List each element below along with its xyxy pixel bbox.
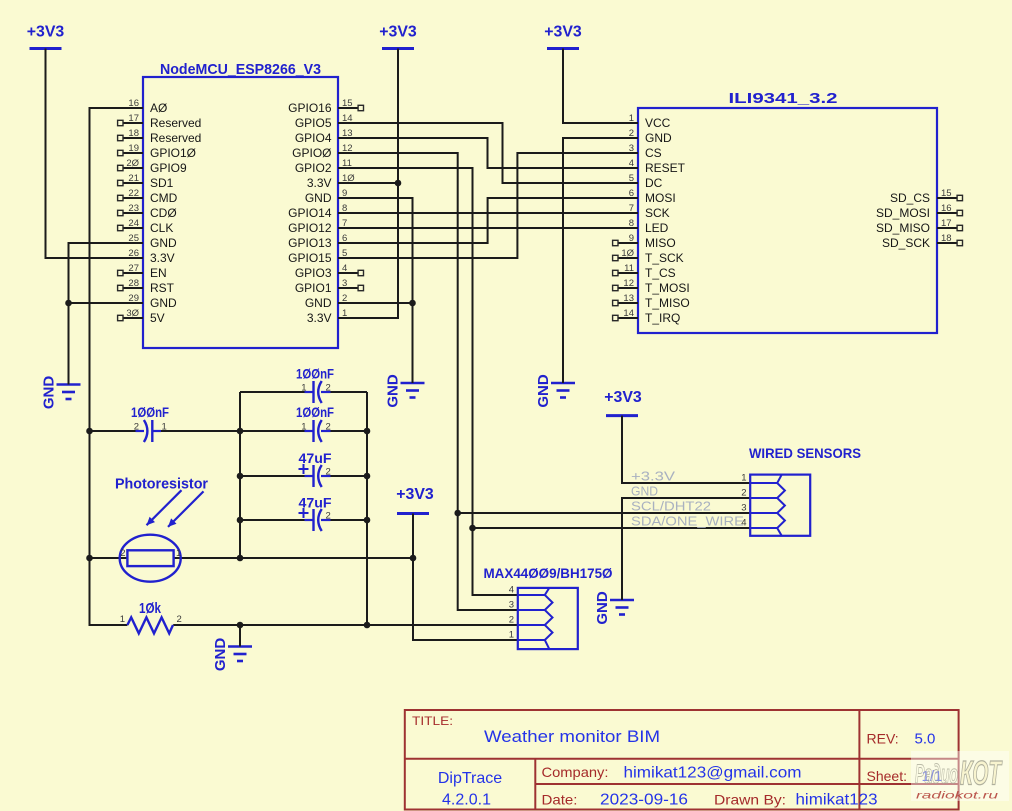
connector J2 WIRED SENSORS bbox=[741, 445, 861, 536]
U2 pin 10 T_SCK bbox=[613, 248, 684, 265]
svg-text:27: 27 bbox=[128, 263, 139, 274]
svg-text:himikat123@gmail.com: himikat123@gmail.com bbox=[624, 765, 802, 782]
svg-text:GND: GND bbox=[631, 484, 658, 499]
wire net GND to J2.2 bbox=[622, 498, 750, 600]
U1 pin 22 CMD bbox=[118, 188, 178, 205]
U2 pin 18 SD_SCK bbox=[882, 233, 963, 250]
U1 pin 6 GPIO13 bbox=[288, 233, 358, 250]
svg-text:25: 25 bbox=[128, 233, 139, 244]
svg-text:SD_SCK: SD_SCK bbox=[882, 236, 930, 250]
svg-text:15: 15 bbox=[342, 98, 353, 109]
svg-text:1: 1 bbox=[509, 630, 514, 641]
svg-text:radiokot.ru: radiokot.ru bbox=[916, 790, 998, 802]
ground symbol GND5 bbox=[212, 638, 252, 672]
svg-text:Drawn By:: Drawn By: bbox=[714, 792, 786, 808]
svg-text:3.3V: 3.3V bbox=[307, 311, 332, 325]
svg-text:GND: GND bbox=[385, 374, 402, 408]
svg-text:Радио: Радио bbox=[915, 759, 958, 789]
ground symbol GND3 bbox=[535, 374, 575, 408]
U1 pin 7 GPIO12 bbox=[288, 218, 358, 235]
svg-text:4: 4 bbox=[509, 585, 514, 596]
svg-text:T_IRQ: T_IRQ bbox=[645, 311, 680, 325]
wire net GPIO5 to ILI DC bbox=[338, 123, 638, 183]
wire net +3V3 to J2.1 bbox=[622, 416, 750, 483]
wire net GPIO13 to ILI MOSI bbox=[338, 198, 638, 243]
wire net +3V3 rail3 to ILI VCC bbox=[563, 49, 638, 124]
wire wire cap row C5 bbox=[240, 519, 367, 521]
U2 pin 14 T_IRQ bbox=[613, 308, 681, 325]
svg-text:EN: EN bbox=[150, 266, 167, 280]
svg-text:26: 26 bbox=[128, 248, 139, 259]
wire net GND at U1 pins 25,29 bbox=[65, 243, 123, 385]
svg-text:КОТ: КОТ bbox=[960, 755, 1003, 793]
svg-text:14: 14 bbox=[623, 308, 634, 319]
U1 pin 21 SD1 bbox=[118, 173, 174, 190]
svg-text:T_CS: T_CS bbox=[645, 266, 676, 280]
svg-text:4.2.0.1: 4.2.0.1 bbox=[442, 792, 491, 809]
svg-text:MOSI: MOSI bbox=[645, 191, 676, 205]
svg-text:GND: GND bbox=[305, 296, 332, 310]
svg-text:3Ø: 3Ø bbox=[126, 308, 139, 319]
svg-text:CS: CS bbox=[645, 146, 662, 160]
svg-text:CDØ: CDØ bbox=[150, 206, 177, 220]
wire net GND cap bus bbox=[364, 392, 371, 628]
svg-text:T_SCK: T_SCK bbox=[645, 251, 684, 265]
svg-text:GND: GND bbox=[594, 591, 611, 625]
U2 pin 2 GND bbox=[618, 128, 672, 145]
U2 pin 9 MISO bbox=[613, 233, 676, 250]
U2 pin 17 SD_MISO bbox=[876, 218, 963, 235]
svg-text:GND: GND bbox=[212, 638, 229, 672]
U1 pin 8 GPIO14 bbox=[288, 203, 358, 220]
svg-text:+3V3: +3V3 bbox=[379, 24, 417, 41]
svg-text:GPIO12: GPIO12 bbox=[288, 221, 332, 235]
U1 pin 10 3.3V bbox=[307, 173, 358, 190]
svg-text:2: 2 bbox=[134, 422, 139, 433]
svg-text:REV:: REV: bbox=[867, 731, 899, 747]
svg-text:T_MOSI: T_MOSI bbox=[645, 281, 690, 295]
svg-text:GPIO1Ø: GPIO1Ø bbox=[150, 146, 196, 160]
svg-text:12: 12 bbox=[623, 278, 634, 289]
U1 pin 28 RST bbox=[118, 278, 175, 295]
U1 pin 18 Reserved bbox=[118, 128, 202, 145]
svg-text:MAX44ØØ9/BH175Ø: MAX44ØØ9/BH175Ø bbox=[484, 565, 613, 581]
svg-text:3: 3 bbox=[342, 278, 347, 289]
capacitor C2 1ØØnF bbox=[296, 366, 334, 404]
svg-text:SD1: SD1 bbox=[150, 176, 174, 190]
svg-text:19: 19 bbox=[128, 143, 139, 154]
svg-text:2: 2 bbox=[326, 422, 331, 433]
wire net A0: U1.16 to C1/LDR/R1 bbox=[86, 108, 127, 625]
svg-text:GND: GND bbox=[150, 236, 177, 250]
svg-text:47uF: 47uF bbox=[299, 450, 332, 466]
title block texts bbox=[412, 714, 942, 809]
U1 pin 16 AØ bbox=[123, 98, 167, 115]
wire wire LDR row bbox=[90, 557, 414, 559]
svg-text:5.0: 5.0 bbox=[915, 731, 936, 748]
svg-text:9: 9 bbox=[629, 233, 634, 244]
capacitor C1 100nF (A0 filter) bbox=[131, 404, 169, 442]
U1 pin 14 GPIO5 bbox=[295, 113, 358, 130]
U1 pin 3 GPIO1 bbox=[295, 278, 364, 295]
svg-text:GPIO5: GPIO5 bbox=[295, 116, 332, 130]
svg-text:5V: 5V bbox=[150, 311, 165, 325]
svg-text:Reserved: Reserved bbox=[150, 116, 201, 130]
svg-text:Weather monitor BIM: Weather monitor BIM bbox=[484, 727, 660, 746]
title block frame bbox=[405, 710, 959, 810]
svg-text:Sheet:: Sheet: bbox=[867, 768, 907, 784]
svg-text:+3V3: +3V3 bbox=[396, 486, 434, 503]
U1 pin 30 5V bbox=[118, 308, 165, 325]
svg-text:15: 15 bbox=[941, 188, 952, 199]
svg-text:29: 29 bbox=[128, 293, 139, 304]
svg-text:GPIO15: GPIO15 bbox=[288, 251, 332, 265]
IC U1 NodeMCU_ESP8266_V3 box bbox=[143, 61, 338, 348]
svg-text:GPIO14: GPIO14 bbox=[288, 206, 332, 220]
U1 pin 24 CLK bbox=[118, 218, 174, 235]
svg-text:AØ: AØ bbox=[150, 101, 167, 115]
net labels at J2 bbox=[631, 469, 744, 529]
svg-text:GPIO16: GPIO16 bbox=[288, 101, 332, 115]
svg-text:2: 2 bbox=[177, 614, 182, 625]
capacitor C3 1ØØnF bbox=[296, 404, 334, 442]
U1 pin 13 GPIO4 bbox=[295, 128, 358, 145]
photoresistor LDR bbox=[120, 535, 182, 582]
svg-text:CMD: CMD bbox=[150, 191, 178, 205]
svg-text:SD_MISO: SD_MISO bbox=[876, 221, 930, 235]
U2 pin 13 T_MISO bbox=[613, 293, 690, 310]
U1 pin 29 GND bbox=[123, 293, 177, 310]
U2 pin 5 DC bbox=[618, 173, 663, 190]
svg-text:21: 21 bbox=[128, 173, 139, 184]
svg-text:17: 17 bbox=[128, 113, 139, 124]
svg-text:GND: GND bbox=[535, 374, 552, 408]
U1 pin 15 GPIO16 bbox=[288, 98, 363, 115]
svg-text:GPIO4: GPIO4 bbox=[295, 131, 332, 145]
svg-text:GND: GND bbox=[645, 131, 672, 145]
wire net +3V3 to U1 pin 26 bbox=[46, 49, 124, 259]
wire net GPIO14 to ILI SCK bbox=[338, 212, 638, 214]
U2 pin 15 SD_CS bbox=[890, 188, 963, 205]
svg-text:RESET: RESET bbox=[645, 161, 686, 175]
U2 pin 8 LED bbox=[618, 218, 669, 235]
wire net +3V3 to LDR and J1.1 bbox=[410, 514, 518, 641]
svg-text:GPIO2: GPIO2 bbox=[295, 161, 332, 175]
U1 pin 23 CDØ bbox=[118, 203, 177, 220]
wire wire cap row C1-C3 bbox=[90, 430, 368, 432]
U1 pin 5 GPIO15 bbox=[288, 248, 358, 265]
svg-text:SCK: SCK bbox=[645, 206, 670, 220]
capacitor C5 47uF bbox=[299, 495, 332, 532]
svg-text:WIRED SENSORS: WIRED SENSORS bbox=[749, 445, 861, 461]
svg-text:GPIO13: GPIO13 bbox=[288, 236, 332, 250]
svg-text:SDA/ONE_WIRE: SDA/ONE_WIRE bbox=[631, 514, 744, 529]
svg-text:1: 1 bbox=[162, 422, 167, 433]
svg-text:Date:: Date: bbox=[542, 792, 578, 808]
wire net GPIO12 to ILI LED bbox=[338, 227, 638, 229]
svg-text:3.3V: 3.3V bbox=[150, 251, 175, 265]
wire net SCL: GPIO0 to J1.3 and J2.3 bbox=[338, 153, 750, 610]
svg-text:GND: GND bbox=[305, 191, 332, 205]
svg-text:+3V3: +3V3 bbox=[27, 24, 65, 41]
wire net ILI GND bbox=[563, 138, 638, 383]
svg-text:1ØØnF: 1ØØnF bbox=[131, 404, 169, 420]
svg-text:1: 1 bbox=[741, 473, 746, 484]
svg-text:DC: DC bbox=[645, 176, 663, 190]
U2 pin 1 VCC bbox=[618, 113, 671, 130]
wire net +3V3 rail2 to U1 pins 1,10 bbox=[338, 49, 401, 319]
svg-text:2: 2 bbox=[326, 383, 331, 394]
svg-text:2023-09-16: 2023-09-16 bbox=[600, 792, 688, 809]
resistor R1 10k bbox=[120, 600, 182, 633]
U2 pin 16 SD_MOSI bbox=[876, 203, 963, 220]
svg-text:1Ø: 1Ø bbox=[621, 248, 634, 259]
svg-text:Reserved: Reserved bbox=[150, 131, 201, 145]
wire net GPIO4 to ILI RESET bbox=[338, 138, 638, 168]
svg-text:1ØØnF: 1ØØnF bbox=[296, 366, 334, 382]
U2 pin 7 SCK bbox=[618, 203, 670, 220]
svg-text:TITLE:: TITLE: bbox=[412, 714, 453, 728]
power symbol +3V3 P5 bbox=[396, 486, 434, 514]
svg-text:2: 2 bbox=[509, 615, 514, 626]
U2 pin 4 RESET bbox=[618, 158, 686, 175]
ground symbol GND4 bbox=[594, 591, 634, 625]
wire net SDA: GPIO2 to J1.4 and J2.4 bbox=[338, 168, 750, 595]
U1 pin 26 3.3V bbox=[123, 248, 175, 265]
power symbol +3V3 P4 bbox=[604, 389, 642, 416]
svg-text:LED: LED bbox=[645, 221, 669, 235]
svg-text:3: 3 bbox=[509, 600, 514, 611]
svg-text:1: 1 bbox=[176, 548, 181, 559]
svg-text:1: 1 bbox=[301, 422, 306, 433]
svg-text:3.3V: 3.3V bbox=[307, 176, 332, 190]
U1 pin 2 GND bbox=[305, 293, 358, 310]
svg-text:CLK: CLK bbox=[150, 221, 173, 235]
svg-text:+3V3: +3V3 bbox=[604, 389, 642, 406]
svg-text:ILI9341_3.2: ILI9341_3.2 bbox=[729, 90, 838, 107]
U1 pin 1 3.3V bbox=[307, 308, 358, 325]
svg-text:NodeMCU_ESP8266_V3: NodeMCU_ESP8266_V3 bbox=[160, 61, 321, 78]
U1 pin 27 EN bbox=[118, 263, 167, 280]
U1 pin 11 GPIO2 bbox=[295, 158, 358, 175]
svg-text:Company:: Company: bbox=[542, 764, 609, 780]
svg-text:+3V3: +3V3 bbox=[544, 24, 582, 41]
U2 pin 3 CS bbox=[618, 143, 662, 160]
U1 pin 9 GND bbox=[305, 188, 358, 205]
U2 pin 12 T_MOSI bbox=[613, 278, 690, 295]
ground symbol GND2 bbox=[385, 374, 425, 408]
svg-text:18: 18 bbox=[128, 128, 139, 139]
U1 pin 12 GPIOØ bbox=[292, 143, 358, 160]
U1 pin 19 GPIO1Ø bbox=[118, 143, 196, 160]
power symbol +3V3 P3 bbox=[544, 24, 582, 49]
svg-text:13: 13 bbox=[623, 293, 634, 304]
svg-text:1ØØnF: 1ØØnF bbox=[296, 404, 334, 420]
U1 pin 20 GPIO9 bbox=[118, 158, 187, 175]
svg-text:24: 24 bbox=[128, 218, 139, 229]
svg-text:GPIO3: GPIO3 bbox=[295, 266, 332, 280]
svg-text:SD_CS: SD_CS bbox=[890, 191, 930, 205]
svg-text:17: 17 bbox=[941, 218, 952, 229]
svg-text:GPIO1: GPIO1 bbox=[295, 281, 332, 295]
U2 pin 11 T_CS bbox=[613, 263, 676, 280]
power symbol +3V3 P1 bbox=[27, 24, 65, 49]
svg-text:SCL/DHT22: SCL/DHT22 bbox=[631, 499, 711, 514]
svg-text:GPIO9: GPIO9 bbox=[150, 161, 187, 175]
svg-text:Photoresistor: Photoresistor bbox=[115, 476, 208, 493]
svg-text:2: 2 bbox=[741, 488, 746, 499]
watermark radiokot bbox=[911, 751, 1009, 802]
svg-text:himikat123: himikat123 bbox=[796, 792, 878, 809]
svg-text:16: 16 bbox=[941, 203, 952, 214]
U1 pin 17 Reserved bbox=[118, 113, 202, 130]
svg-text:GND: GND bbox=[150, 296, 177, 310]
svg-text:VCC: VCC bbox=[645, 116, 671, 130]
ground symbol GND1 bbox=[41, 376, 81, 410]
svg-text:16: 16 bbox=[128, 98, 139, 109]
svg-text:T_MISO: T_MISO bbox=[645, 296, 690, 310]
svg-text:4: 4 bbox=[342, 263, 347, 274]
svg-text:2: 2 bbox=[120, 548, 125, 559]
svg-text:GND: GND bbox=[41, 376, 58, 410]
wire wire cap row C4 bbox=[240, 475, 367, 477]
svg-text:GPIOØ: GPIOØ bbox=[292, 146, 331, 160]
capacitor C4 47uF bbox=[299, 450, 332, 487]
svg-text:3: 3 bbox=[741, 503, 746, 514]
svg-text:2: 2 bbox=[326, 511, 331, 522]
svg-text:+3.3V: +3.3V bbox=[631, 469, 675, 484]
svg-text:1Øk: 1Øk bbox=[139, 600, 162, 617]
svg-text:23: 23 bbox=[128, 203, 139, 214]
svg-text:SD_MOSI: SD_MOSI bbox=[876, 206, 930, 220]
svg-text:28: 28 bbox=[128, 278, 139, 289]
svg-text:2: 2 bbox=[326, 467, 331, 478]
svg-text:47uF: 47uF bbox=[299, 495, 332, 511]
connector J1 MAX44009/BH1750 bbox=[484, 565, 613, 649]
photoresistor label and arrows bbox=[115, 476, 208, 527]
svg-text:22: 22 bbox=[128, 188, 139, 199]
svg-text:18: 18 bbox=[941, 233, 952, 244]
wire wire cap row C2 bbox=[240, 391, 367, 393]
wire net GPIO15 to ILI CS bbox=[338, 153, 638, 258]
IC U2 ILI9341_3.2 box bbox=[638, 90, 937, 333]
svg-text:RST: RST bbox=[150, 281, 175, 295]
svg-text:11: 11 bbox=[624, 263, 634, 274]
wire net GND row to J1.2 bbox=[173, 622, 518, 647]
svg-text:MISO: MISO bbox=[645, 236, 676, 250]
wire net +3V3 cap bus bbox=[237, 392, 244, 561]
U2 pin 6 MOSI bbox=[618, 188, 676, 205]
svg-text:DipTrace: DipTrace bbox=[438, 770, 502, 787]
U1 pin 4 GPIO3 bbox=[295, 263, 364, 280]
U1 pin 25 GND bbox=[123, 233, 177, 250]
svg-text:1: 1 bbox=[120, 614, 125, 625]
svg-text:2Ø: 2Ø bbox=[126, 158, 139, 169]
wire net GND at U1 pins 9,2 bbox=[338, 198, 416, 383]
svg-text:1: 1 bbox=[301, 383, 306, 394]
power symbol +3V3 P2 bbox=[379, 24, 417, 49]
